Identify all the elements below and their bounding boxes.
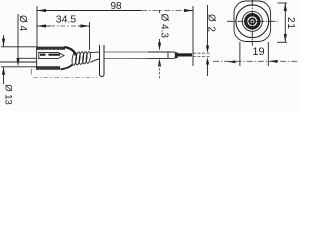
- svg-text:19: 19: [252, 46, 264, 58]
- arrow dia13 down: [2, 39, 5, 47]
- tube hanging vertical: [100, 45, 105, 77]
- body inner bar: [40, 54, 60, 56]
- body bottom band knurl: [39, 66, 59, 69]
- shaft inner detail: [167, 52, 169, 58]
- extension line right end (x=193): [192, 6, 194, 66]
- spring coil turn 2: [75, 52, 81, 65]
- body left edge: [36, 47, 38, 71]
- extension line body top: [1, 46, 37, 48]
- dim dia2 upper line: [207, 5, 209, 47]
- arrow 19 right: [269, 60, 278, 63]
- svg-text:21: 21: [285, 17, 296, 30]
- front hex hole: [250, 19, 254, 23]
- pin dia2: [178, 53, 193, 56]
- dim dia13 line top: [3, 35, 5, 47]
- dim 21 line: [284, 3, 286, 42]
- svg-text:Ø 4.3: Ø 4.3: [159, 14, 170, 39]
- arrow 34.5 right: [81, 24, 90, 27]
- body wedge: [58, 52, 64, 58]
- body inner line lower: [38, 58, 58, 60]
- body bottom band: [37, 66, 60, 70]
- shaft cap: [174, 52, 176, 58]
- front center dot: [251, 20, 253, 22]
- extension line 34.5 right (x=89.5): [89, 22, 91, 50]
- body bottom curve: [61, 65, 73, 70]
- extension line dia13 bottom: [1, 66, 37, 68]
- spring coil turn 5: [86, 51, 92, 63]
- hook wire top line: [18, 57, 37, 59]
- body top band hatch: [39, 47, 62, 50]
- arrow 19 left: [228, 60, 236, 63]
- front crosshair horizontal: [227, 20, 278, 22]
- body inner line upper: [38, 51, 58, 53]
- arrow 21 down: [284, 34, 287, 42]
- arrow 98 right: [184, 9, 193, 12]
- dim 19 ext right: [267, 42, 269, 66]
- shaft top line: [90, 51, 99, 54]
- spring coil turn 3: [78, 52, 84, 65]
- svg-text:34.5: 34.5: [56, 14, 77, 26]
- front crosshair vertical: [251, 0, 253, 46]
- shaft bottom line: [90, 59, 99, 63]
- svg-text:Ø 2: Ø 2: [206, 14, 217, 33]
- svg-text:98: 98: [110, 1, 122, 12]
- hook wire axis line: [0, 61, 37, 63]
- spring coil turn 1: [71, 52, 77, 66]
- extension line left (x=37): [36, 6, 38, 47]
- spring coil turn 4: [82, 51, 88, 64]
- dim dia4.3 lower: [158, 59, 161, 67]
- svg-text:Ø 13: Ø 13: [3, 84, 14, 105]
- front view box: [234, 1, 271, 42]
- svg-text:Ø 4: Ø 4: [17, 15, 28, 32]
- arrow dia4 down: [16, 58, 19, 67]
- hidden line under body: [33, 77, 97, 79]
- body top band: [37, 47, 65, 50]
- dim dia13 line bottom: [3, 67, 5, 84]
- leader line dia4 (x=18): [17, 14, 19, 61]
- arrow 21 up: [284, 3, 287, 11]
- collar: [175, 52, 178, 58]
- dim 21 ext top: [278, 2, 287, 4]
- dimension line 98: [37, 10, 141, 12]
- body inner box left edge: [38, 52, 40, 58]
- dim 19 line: [213, 60, 298, 62]
- front circle mid: [242, 11, 262, 31]
- dim 19 ext left: [239, 42, 241, 66]
- dim 21 ext bottom: [277, 41, 287, 43]
- arrow dia13 up: [2, 67, 5, 75]
- arrow 98 left: [37, 9, 46, 12]
- arrow 34.5 left: [37, 24, 46, 27]
- pin extension dashes: [193, 52, 211, 54]
- dim dia2 lower: [206, 57, 209, 65]
- front hub: [249, 18, 257, 26]
- dim dia4.3 upper: [159, 10, 161, 13]
- body top band curve: [65, 47, 77, 56]
- pivot stub: [30, 69, 32, 75]
- front dark ring: [246, 15, 259, 28]
- dimension line 34.5: [37, 25, 50, 27]
- front circle outer: [236, 5, 269, 38]
